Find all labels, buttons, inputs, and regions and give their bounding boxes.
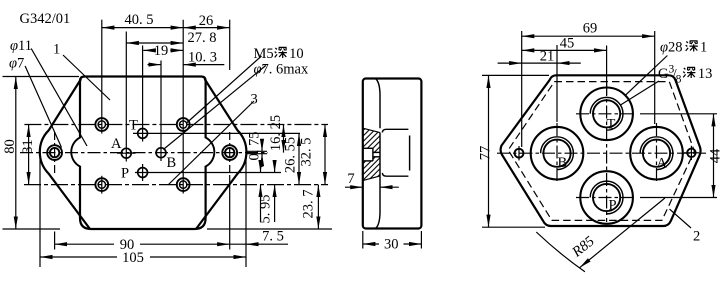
port A: [121, 148, 131, 158]
dimension 0.75: [261, 139, 263, 151]
dimension 23.7: [317, 185, 319, 229]
port B: [156, 148, 166, 158]
inner profile upper: [376, 79, 380, 128]
svg-text:80: 80: [2, 139, 18, 154]
section break line bottom: [363, 176, 380, 181]
extension line x=161 (B): [160, 61, 162, 162]
leader item 1: [63, 55, 110, 100]
svg-text:φ281: φ281: [660, 40, 707, 56]
flange right slant and ear: [196, 79, 246, 229]
dimension 26.55: [298, 133, 300, 184]
svg-text:26. 55: 26. 55: [283, 137, 299, 173]
svg-text:31: 31: [20, 139, 36, 154]
leader G3/8: [620, 81, 659, 105]
rear port A: [630, 127, 683, 180]
main horizontal centerline: [20, 152, 268, 154]
counterbore bottom-left vertical tick: [101, 176, 103, 194]
svg-text:23. 7: 23. 7: [301, 190, 317, 219]
port P: [138, 168, 148, 178]
svg-text:44: 44: [708, 148, 721, 163]
bottom edge extension to right: [207, 228, 332, 230]
dimension 90: [54, 232, 56, 250]
P vertical tick: [142, 164, 144, 181]
counterbore hole bottom-left (M5): [95, 178, 108, 191]
svg-text:G342/01: G342/01: [20, 11, 71, 27]
svg-text:30: 30: [384, 237, 399, 253]
rear port T: [580, 88, 633, 141]
ear hole right: [687, 149, 695, 157]
rear port B: [531, 127, 584, 180]
hexagon outline: [501, 75, 701, 226]
inner vertical through section: [379, 133, 381, 176]
extension line x=142.6 (T/P): [142, 46, 144, 142]
P horizontal centerline: [576, 197, 637, 199]
extension line x=521.7: [521, 31, 523, 147]
svg-text:7. 5: 7. 5: [262, 229, 284, 245]
dimension 45: [522, 49, 607, 51]
svg-text:B: B: [167, 155, 177, 171]
hatch upper: [363, 129, 380, 153]
dimension 10.3: [148, 64, 162, 66]
white gaps on pad verticals for boss arcs: [79, 138, 82, 166]
svg-text:φ7. 6max: φ7. 6max: [254, 62, 309, 78]
left boss arc: [71, 138, 80, 167]
svg-text:A: A: [657, 156, 668, 172]
R85 arc: [536, 232, 585, 272]
svg-text:105: 105: [122, 250, 144, 266]
rear pocket vertical: [409, 136, 411, 171]
mounting hole vertical centerline right: [229, 132, 231, 173]
mounting hole vertical centerline left: [54, 132, 56, 173]
leader phi11: [31, 49, 87, 147]
svg-text:40. 5: 40. 5: [125, 12, 154, 28]
svg-text:T: T: [607, 117, 616, 133]
svg-text:B: B: [558, 155, 568, 171]
hidden front profile dashed hexagon: [508, 82, 694, 221]
svg-text:21: 21: [540, 49, 555, 65]
dimension 27.8: [126, 42, 183, 44]
svg-text:77: 77: [478, 146, 494, 161]
dimension 5.95: [260, 185, 262, 222]
svg-text:φ7: φ7: [9, 56, 24, 72]
flange left slant and ear: [40, 79, 90, 229]
dimension 7.5: [230, 243, 246, 245]
dimension 40.5: [102, 27, 183, 29]
T horizontal centerline: [576, 113, 637, 115]
dimension 32.5: [324, 125, 326, 185]
svg-text:7: 7: [347, 171, 354, 187]
leader phi7: [25, 66, 61, 148]
B vertical centerline: [556, 123, 558, 183]
svg-text:10. 3: 10. 3: [188, 50, 217, 66]
dimension 30: [362, 231, 364, 249]
T row line: [133, 132, 300, 134]
dimension 44: [640, 113, 717, 115]
hatch lower: [363, 157, 380, 181]
svg-text:69: 69: [583, 21, 598, 37]
main horizontal centerline: [497, 152, 706, 154]
svg-text:P: P: [609, 198, 617, 214]
dimension 31: [28, 125, 30, 185]
dimension 77: [482, 74, 549, 76]
leader phi28: [625, 56, 667, 96]
leader item 3: [168, 101, 254, 185]
dimension 105: [39, 158, 41, 267]
svg-text:T: T: [129, 118, 138, 134]
svg-text:3: 3: [251, 92, 258, 108]
counterbore row centerline bottom: [24, 184, 328, 186]
rear pocket top: [382, 129, 408, 132]
dimension 69: [522, 35, 655, 37]
mounting hole right: [222, 145, 237, 160]
counterbore hole bottom-right (M5): [177, 178, 190, 191]
inner profile lower: [376, 176, 380, 228]
right boss arc (item 3): [206, 138, 215, 167]
counterbore row centerline top: [24, 124, 328, 126]
extension line x=101.8: [101, 20, 103, 134]
svg-text:A: A: [111, 136, 122, 152]
ear hole left: [515, 149, 524, 158]
A crosshair horizontal: [117, 152, 136, 154]
dimension 7: [345, 186, 363, 188]
svg-text:45: 45: [560, 36, 575, 52]
extension line x=654.7: [654, 31, 656, 124]
A vertical centerline: [656, 123, 658, 183]
counterbore hole top-right (M5): [177, 118, 190, 131]
extension line x=229.7 top: [229, 20, 231, 70]
rear pocket bottom: [382, 173, 408, 176]
extension line x=606.6 top: [606, 46, 608, 96]
counterbore hole top-left (M5): [95, 118, 108, 131]
extension line x=183.2: [182, 20, 184, 194]
dimension 21: [498, 62, 522, 64]
R85 leader: [580, 198, 665, 268]
dimension 19: [143, 49, 152, 51]
right stack: 0.75 pair lines: [246, 150, 267, 152]
svg-text:P: P: [121, 166, 129, 182]
extension line x=126.3 (A): [125, 32, 127, 162]
plate pad rounded rectangle (item 1 body): [80, 77, 206, 230]
dimension 26: [183, 27, 230, 29]
svg-text:0. 75: 0. 75: [247, 132, 263, 161]
svg-text:19: 19: [154, 43, 169, 59]
leader item 2: [670, 209, 692, 228]
svg-text:φ11: φ11: [10, 38, 32, 54]
section break line top: [363, 128, 380, 132]
dimension 80: [3, 76, 80, 78]
leader phi7.6max: [163, 66, 265, 150]
svg-text:2: 2: [693, 229, 700, 245]
port T: [138, 129, 148, 139]
dimension 16.25: [283, 125, 285, 153]
mounting hole left (phi11/phi7): [47, 145, 62, 160]
svg-text:1: 1: [53, 42, 60, 58]
port hole walls: [363, 147, 373, 149]
rear port P: [580, 171, 633, 224]
svg-text:32. 5: 32. 5: [299, 138, 315, 167]
svg-text:27. 8: 27. 8: [188, 30, 217, 46]
svg-text:5. 95: 5. 95: [258, 195, 274, 224]
extension line x=557: [556, 45, 558, 122]
svg-text:26: 26: [199, 13, 214, 29]
main vertical centerline: [606, 83, 608, 222]
leader M5: [187, 56, 262, 123]
P row line: [135, 172, 281, 174]
side view body rectangle: [363, 79, 422, 229]
